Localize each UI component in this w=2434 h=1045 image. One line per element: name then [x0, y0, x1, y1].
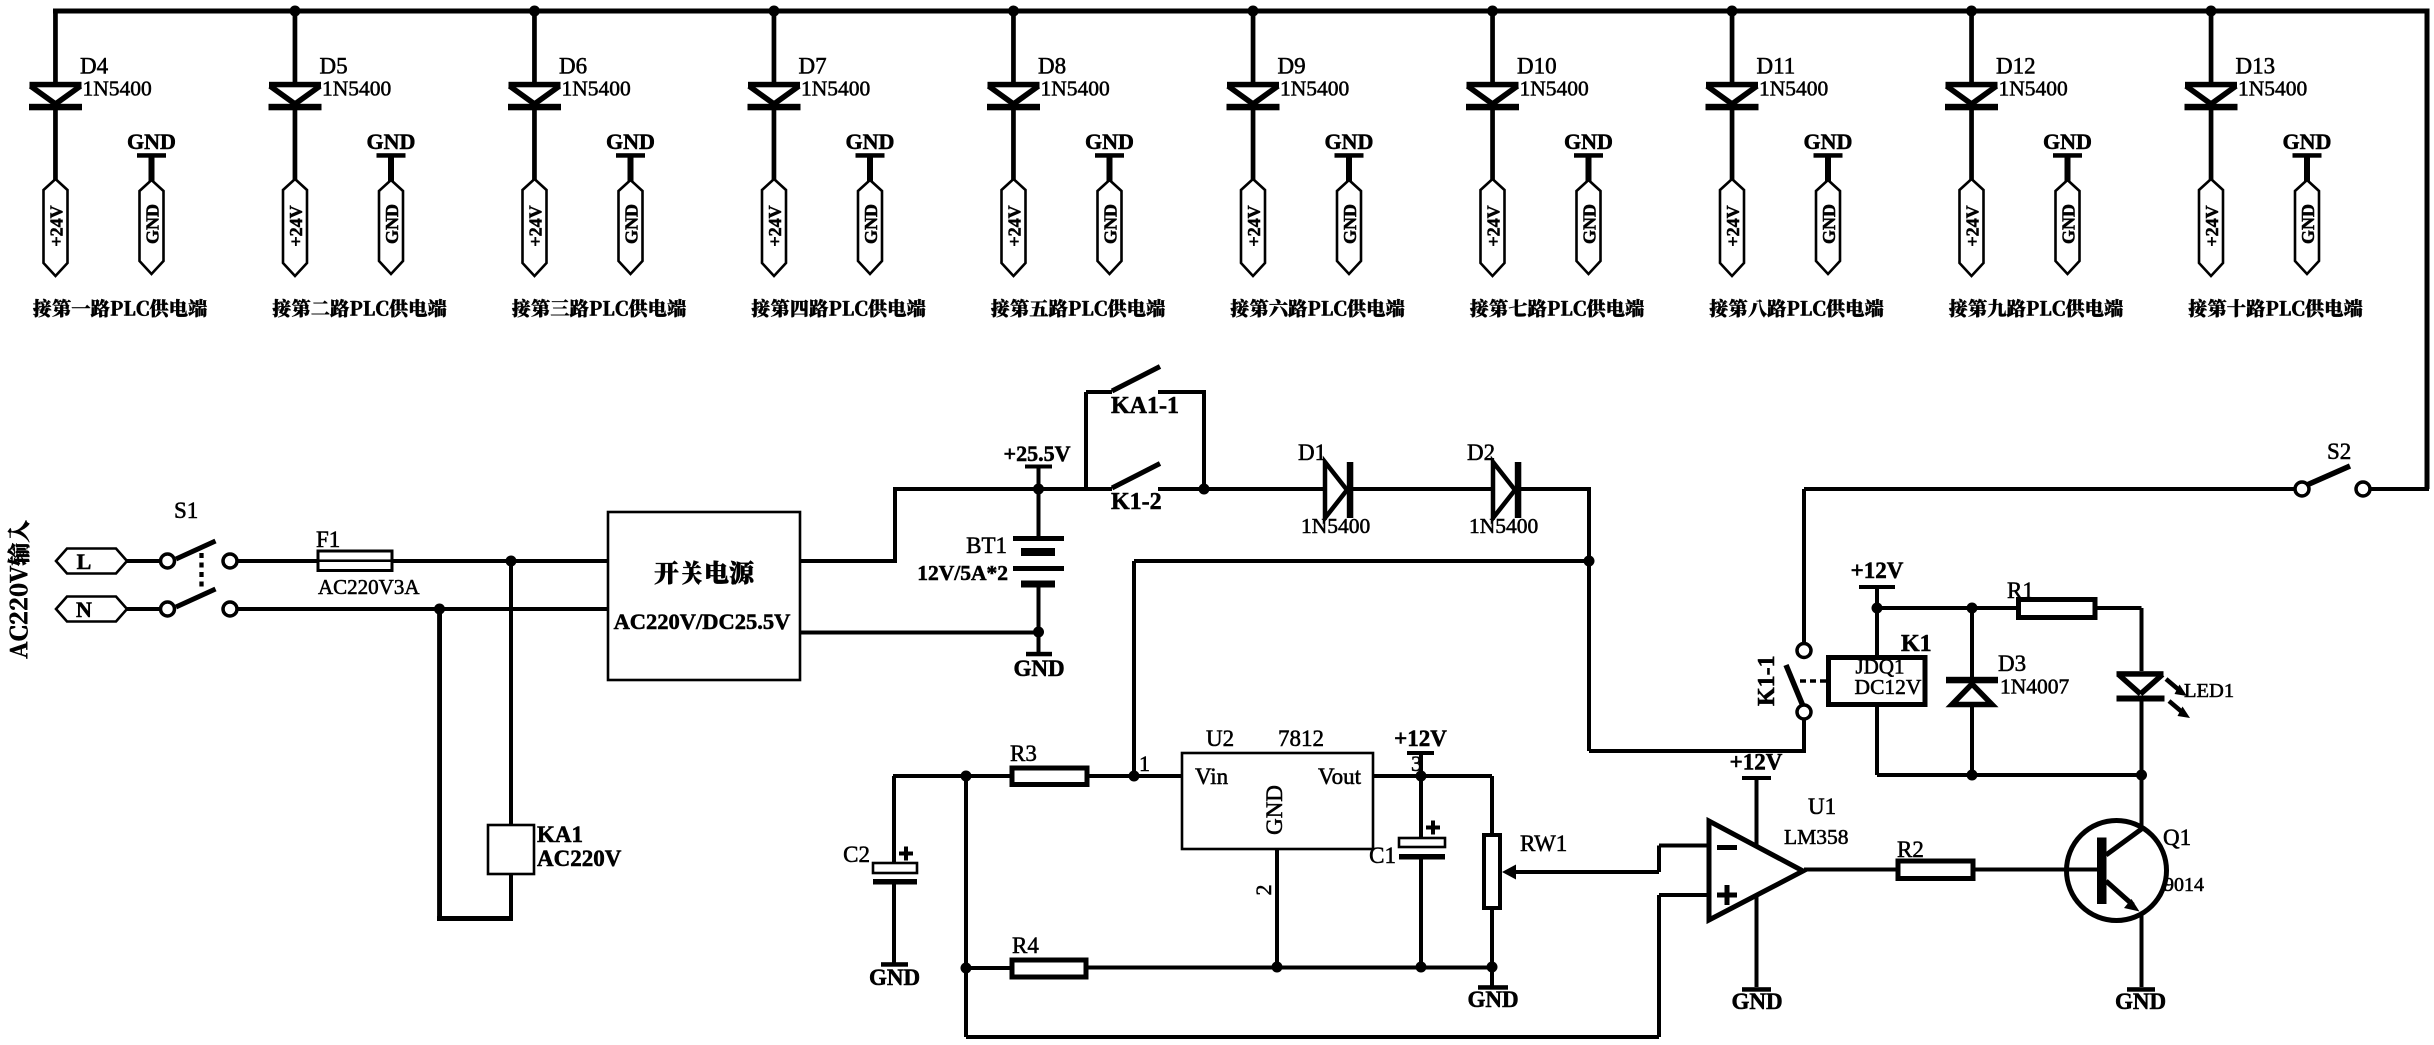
svg-text:AC220V: AC220V: [537, 846, 622, 871]
svg-text:D6: D6: [559, 54, 587, 79]
svg-text:D9: D9: [1278, 54, 1306, 79]
svg-text:1: 1: [1139, 751, 1150, 776]
svg-text:Vout: Vout: [1318, 764, 1362, 789]
svg-text:BT1: BT1: [966, 533, 1007, 558]
svg-text:GND: GND: [861, 204, 881, 244]
svg-text:Q1: Q1: [2163, 825, 2191, 850]
svg-text:GND: GND: [143, 204, 163, 244]
svg-text:1N5400: 1N5400: [2238, 77, 2307, 101]
svg-text:U2: U2: [1206, 726, 1234, 751]
svg-text:GND: GND: [367, 129, 416, 154]
svg-text:R3: R3: [1010, 741, 1037, 766]
svg-text:GND: GND: [2115, 989, 2166, 1014]
svg-text:1N5400: 1N5400: [1759, 77, 1828, 101]
svg-text:1N4007: 1N4007: [2000, 675, 2070, 699]
svg-text:DC12V: DC12V: [1855, 675, 1922, 699]
svg-text:1N5400: 1N5400: [1041, 77, 1110, 101]
svg-text:R4: R4: [1012, 933, 1039, 958]
svg-text:D7: D7: [799, 54, 827, 79]
svg-text:F1: F1: [316, 527, 340, 552]
svg-text:GND: GND: [1262, 785, 1287, 835]
svg-text:+24V: +24V: [2202, 205, 2222, 246]
svg-text:D12: D12: [1996, 54, 2036, 79]
svg-text:C2: C2: [843, 842, 870, 867]
svg-text:GND: GND: [1085, 129, 1134, 154]
svg-text:+24V: +24V: [1484, 205, 1504, 246]
svg-text:+24V: +24V: [1723, 205, 1743, 246]
svg-text:GND: GND: [2059, 204, 2079, 244]
svg-text:K1: K1: [1901, 631, 1932, 657]
svg-text:+24V: +24V: [1963, 205, 1983, 246]
svg-text:D2: D2: [1467, 440, 1495, 465]
svg-text:GND: GND: [127, 129, 176, 154]
svg-text:KA1: KA1: [537, 822, 583, 847]
svg-text:GND: GND: [1731, 989, 1782, 1014]
svg-text:D4: D4: [80, 54, 109, 79]
svg-text:GND: GND: [846, 129, 895, 154]
svg-text:+12V: +12V: [1730, 750, 1783, 775]
svg-text:GND: GND: [606, 129, 655, 154]
svg-text:D10: D10: [1517, 54, 1557, 79]
svg-text:S1: S1: [174, 498, 198, 523]
svg-text:+24V: +24V: [1005, 205, 1025, 246]
svg-text:AC220V/DC25.5V: AC220V/DC25.5V: [614, 609, 791, 634]
svg-text:GND: GND: [622, 204, 642, 244]
svg-text:GND: GND: [1580, 204, 1600, 244]
svg-text:S2: S2: [2327, 439, 2351, 464]
svg-text:D1: D1: [1298, 440, 1326, 465]
svg-text:GND: GND: [2298, 204, 2318, 244]
svg-text:GND: GND: [1467, 987, 1518, 1012]
svg-text:D8: D8: [1038, 54, 1066, 79]
svg-text:+24V: +24V: [286, 205, 306, 246]
svg-text:LM358: LM358: [1784, 825, 1849, 849]
svg-text:GND: GND: [2043, 129, 2092, 154]
svg-text:L: L: [77, 549, 92, 574]
svg-text:KA1-1: KA1-1: [1111, 393, 1179, 419]
svg-text:GND: GND: [2283, 129, 2332, 154]
svg-text:K1-1: K1-1: [1754, 655, 1780, 706]
svg-text:U1: U1: [1808, 794, 1836, 819]
svg-text:D13: D13: [2236, 54, 2276, 79]
svg-text:1N5400: 1N5400: [322, 77, 391, 101]
svg-text:GND: GND: [1340, 204, 1360, 244]
svg-text:1N5400: 1N5400: [1280, 77, 1349, 101]
svg-text:+12V: +12V: [1851, 558, 1904, 583]
svg-text:+24V: +24V: [47, 205, 67, 246]
svg-text:D11: D11: [1757, 54, 1796, 79]
svg-text:1N5400: 1N5400: [1520, 77, 1589, 101]
svg-text:+25.5V: +25.5V: [1004, 441, 1071, 466]
svg-text:2: 2: [1251, 885, 1276, 896]
svg-text:7812: 7812: [1278, 726, 1324, 751]
svg-text:+24V: +24V: [765, 205, 785, 246]
svg-text:1N5400: 1N5400: [562, 77, 631, 101]
svg-text:+24V: +24V: [1244, 205, 1264, 246]
svg-text:R2: R2: [1897, 837, 1924, 862]
svg-text:R1: R1: [2007, 578, 2034, 603]
svg-text:9014: 9014: [2164, 874, 2204, 896]
svg-text:1N5400: 1N5400: [1301, 514, 1370, 538]
svg-text:GND: GND: [1101, 204, 1121, 244]
svg-text:Vin: Vin: [1195, 764, 1229, 789]
svg-text:RW1: RW1: [1520, 831, 1567, 856]
svg-text:GND: GND: [1325, 129, 1374, 154]
svg-text:D3: D3: [1998, 651, 2026, 676]
svg-text:D5: D5: [320, 54, 348, 79]
svg-text:1N5400: 1N5400: [1469, 514, 1538, 538]
svg-text:1N5400: 1N5400: [1999, 77, 2068, 101]
svg-text:GND: GND: [1013, 656, 1064, 681]
svg-text:K1-2: K1-2: [1111, 489, 1162, 515]
svg-text:+12V: +12V: [1394, 726, 1447, 751]
svg-text:LED1: LED1: [2184, 680, 2234, 702]
svg-text:GND: GND: [1804, 129, 1853, 154]
svg-text:12V/5A*2: 12V/5A*2: [917, 561, 1008, 585]
svg-text:+24V: +24V: [526, 205, 546, 246]
svg-text:AC220V3A: AC220V3A: [318, 575, 420, 599]
svg-text:N: N: [76, 597, 92, 622]
svg-text:1N5400: 1N5400: [83, 77, 152, 101]
svg-text:1N5400: 1N5400: [801, 77, 870, 101]
svg-text:GND: GND: [869, 965, 920, 990]
svg-text:GND: GND: [1564, 129, 1613, 154]
svg-text:GND: GND: [382, 204, 402, 244]
svg-text:GND: GND: [1819, 204, 1839, 244]
